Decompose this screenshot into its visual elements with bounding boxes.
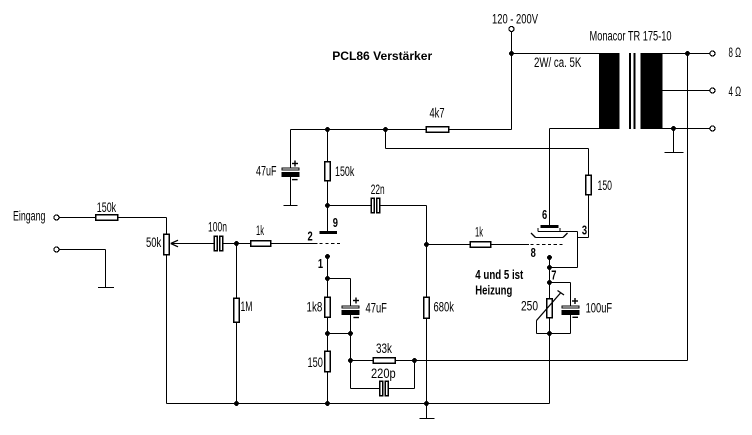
pot 250 wiper wire [536,321,538,334]
wire wiper to 100n [171,243,214,245]
triode anode lead [327,206,329,232]
ground main [426,404,428,419]
svg-text:8 Ω: 8 Ω [729,45,742,60]
wire B+ rail [291,129,426,131]
triode grid dashed pin 2 [320,243,342,245]
terminal 4 ohm [710,88,715,93]
label 1M [241,299,253,314]
pentode anode bar [541,225,559,228]
wire 150k to pot top [119,217,167,219]
label 1k pentode [475,225,483,240]
resistor 150k input [95,214,119,221]
minus sign 100uF [572,316,578,318]
resistor 150k anode load [327,130,329,162]
svg-text:1k: 1k [256,223,264,238]
pin label 7 [551,269,556,283]
label 4k7 [430,106,445,121]
potentiometer 50k [163,234,170,256]
wire feedback horizontal [415,360,688,362]
svg-text:220p: 220p [371,366,396,381]
plus sign 100uF [572,298,578,304]
wire cathode bottom to rail [549,334,551,404]
svg-text:150: 150 [308,355,323,370]
label 150 cathode [308,355,323,370]
wire cathode node right [328,278,351,280]
terminal 0 ohm [710,126,715,131]
svg-text:1M: 1M [241,299,253,314]
wire anode node to 22n [328,205,371,207]
terminal input cold [54,247,59,252]
node 33k left [348,358,353,363]
svg-text:1k8: 1k8 [307,300,323,315]
node triode cathode junction [325,276,330,281]
wire 4-ohm tap [663,90,710,92]
resistor 150 screen [585,175,592,196]
svg-text:33k: 33k [376,341,392,356]
svg-text:100n: 100n [208,220,227,235]
capacitor 22n [371,198,375,214]
svg-text:4k7: 4k7 [430,106,445,121]
node triode anode junction [325,203,330,208]
label 100n [208,220,227,235]
svg-text:150k: 150k [335,164,354,179]
resistor 150 triode cathode [327,334,329,351]
node 33k right feedback [412,358,417,363]
pin label 8 [531,246,536,260]
label Monacor TR 175-10 [590,29,672,44]
svg-text:150k: 150k [97,200,116,215]
ground secondary [673,129,675,153]
wire pin7 to 100uF [550,282,571,284]
transformer T1 core [629,53,631,129]
terminal input hot [54,215,59,220]
resistor 1M grid leak [236,244,238,298]
svg-text:2W/ ca. 5K: 2W/ ca. 5K [534,55,581,70]
label 4 ohm [729,84,742,99]
svg-text:22n: 22n [371,182,385,197]
svg-text:250: 250 [521,299,538,314]
capacitor 220p parallel [350,361,352,389]
svg-text:7: 7 [551,269,556,283]
wire screen supply branch [385,130,387,149]
note Heizung [475,284,512,298]
wire cathode row [328,333,351,335]
node cathode row right [348,331,353,336]
ground bar below 47uF [284,205,298,207]
svg-text:Heizung: Heizung [475,284,512,298]
transformer T1 secondary winding [641,53,663,129]
pentode beam plate bracket [537,228,539,232]
svg-text:8: 8 [531,246,536,260]
resistor 4k7 [426,126,450,133]
node rail 1M [234,401,239,406]
svg-text:6: 6 [542,208,547,222]
node cathode g3 junction [547,265,552,270]
wire 22n to pentode grid branch [381,205,427,207]
wire 33k to feedback node [396,360,415,362]
capacitor 47uF filter [290,130,292,168]
resistor 1k pentode grid [470,241,492,248]
terminal HT supply [509,27,514,32]
wire grid node to 1k [427,244,470,246]
potentiometer 250 [549,283,551,299]
wire input to 150k [60,217,96,219]
svg-text:47uF: 47uF [366,301,387,316]
wire 100n to grid node [224,243,251,245]
label 47uF cathode [366,301,387,316]
pot 50k wiper arrow [171,240,178,247]
wire 8-ohm tap [663,53,710,55]
node cathode row left [325,331,330,336]
wire beam plates to cathode [577,232,579,268]
label 47uF filter [256,164,277,179]
svg-text:50k: 50k [146,235,161,250]
svg-text:Monacor TR 175-10: Monacor TR 175-10 [590,29,672,44]
label 33k [376,341,392,356]
wire 1k to pentode grid [492,244,530,246]
minus sign 47uF filter [292,179,298,181]
svg-text:2: 2 [308,230,313,244]
label 8 ohm [729,45,742,60]
svg-text:680k: 680k [434,300,455,315]
svg-text:120 - 200V: 120 - 200V [492,12,538,27]
bottom ground rail [167,403,550,405]
capacitor 100uF [562,306,580,309]
svg-text:4 und 5 ist: 4 und 5 ist [475,268,524,282]
plus sign 47uF filter [292,161,298,167]
title PCL86 Verstaerker [332,49,432,63]
label 150k input [97,200,116,215]
label 680k [434,300,455,315]
wire 0-ohm tap [663,128,710,130]
node pentode grid junction [424,242,429,247]
label 22n [371,182,385,197]
label 250 [521,299,538,314]
wire cathode down [549,258,551,283]
ground input chassis [98,287,114,289]
svg-text:4 Ω: 4 Ω [729,84,742,99]
resistor 680k pentode grid leak [426,245,428,297]
capacitor 100n [214,236,218,252]
wire to 33k node [350,334,352,361]
svg-text:3: 3 [582,224,587,238]
wire B+ to primary top [512,53,600,55]
plus sign 47uF cathode [353,298,359,304]
label 100uF [586,301,613,316]
label 120 - 200V [492,12,538,27]
resistor 1k triode grid [250,240,272,247]
wire screen stub pin 3 [578,237,589,239]
wire node to 33k [351,360,373,362]
wire input cold to chassis [60,249,106,251]
pentode control grid dashed pin 8 [531,244,564,246]
node pentode cathode pin 7 [547,280,552,285]
svg-text:1k: 1k [475,225,483,240]
svg-text:1: 1 [318,257,323,271]
pin label 2 [308,230,313,244]
node 1M junction [234,241,239,246]
wire 1k to triode grid [272,243,318,245]
svg-text:Eingang: Eingang [13,209,45,224]
node B+ junction [509,51,514,56]
label 2W/ ca. 5K [534,55,581,70]
node feedback tap [685,51,690,56]
minus sign 47uF cathode [353,317,359,319]
pot 250 diagonal arrow [537,291,565,321]
capacitor 47uF cathode [350,279,352,306]
resistor 33k feedback [373,357,397,364]
triode anode bar pin 9 [320,231,338,234]
label Eingang [13,209,45,224]
pin label 6 [542,208,547,222]
pentode screen grid diagonals [531,233,568,238]
pentode anode lead pin 6 [549,129,551,226]
resistor 1k8 cathode [327,279,329,297]
node pentode cathode bottom [547,331,552,336]
node rail screen branch [383,127,388,132]
label 50k [146,235,161,250]
pin label 3 [582,224,587,238]
note 4 und 5 ist [475,268,524,282]
node rail 150k [325,127,330,132]
wire B+ node down to 4k7 [511,54,513,130]
label 1k8 [307,300,323,315]
svg-text:9: 9 [333,216,338,230]
label 1k triode [256,223,264,238]
wire feedback vertical [687,54,689,361]
svg-text:100uF: 100uF [586,301,613,316]
pin label 1 [318,257,323,271]
wire pot bottom to rail [166,256,168,404]
node secondary ground junction [671,126,676,131]
node bottom rail 680k [424,401,429,406]
label 150 screen [598,178,613,193]
pin label 9 [333,216,338,230]
label 150k anode [335,164,354,179]
pentode cathode dot [547,255,552,260]
wire supply to B+ node [511,32,513,54]
triode cathode dot pin 1 [325,254,330,259]
wire triode cathode down [327,257,329,279]
transformer T1 primary winding [599,53,620,129]
node rail 150 [325,401,330,406]
label 220p [371,366,396,381]
svg-text:47uF: 47uF [256,164,277,179]
svg-text:PCL86 Verstärker: PCL86 Verstärker [332,49,432,63]
terminal 8 ohm [710,51,715,56]
svg-text:150: 150 [598,178,613,193]
